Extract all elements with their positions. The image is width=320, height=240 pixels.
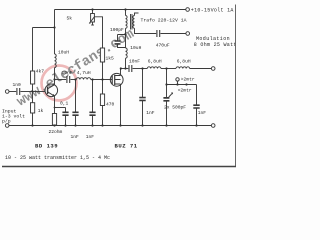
wire corner to 1nF output xyxy=(196,85,198,106)
wire choke to drain node xyxy=(125,58,127,68)
wire gate node to mosfet gate xyxy=(103,79,113,81)
wire coil to collector xyxy=(54,68,56,85)
wire base node to transistor xyxy=(33,91,46,93)
svg-text:1k: 1k xyxy=(38,108,44,114)
ground node 22ohm xyxy=(53,124,55,126)
svg-text:BUZ 71: BUZ 71 xyxy=(115,143,138,150)
svg-text:Trafo 220-12V 1A: Trafo 220-12V 1A xyxy=(141,18,187,24)
svg-text:p/p: p/p xyxy=(2,119,11,125)
node 4k7 top xyxy=(53,26,55,28)
wire ground rail xyxy=(9,125,211,127)
capacitor 1nF shunt b xyxy=(92,80,94,126)
node drain xyxy=(120,67,122,69)
wire collector chain tap xyxy=(55,79,67,81)
svg-text:470uF: 470uF xyxy=(156,43,170,49)
svg-text:1nF: 1nF xyxy=(71,134,80,140)
node tap a xyxy=(176,83,178,85)
wire input terminal to cap xyxy=(9,91,16,93)
node chainA right xyxy=(91,78,93,80)
inductor 10uH choke xyxy=(126,48,128,58)
wire top supply rail xyxy=(55,9,186,11)
wire pot lower stub xyxy=(91,22,94,25)
svg-text:1nF: 1nF xyxy=(146,110,155,116)
svg-text:+10-15Volt 1A: +10-15Volt 1A xyxy=(191,8,234,14)
wire 22ohm to ground xyxy=(54,124,56,127)
svg-text:1n0: 1n0 xyxy=(13,82,22,88)
capacitor trimmer 2x500pF xyxy=(163,98,169,101)
wire 470uF to modulation terminal xyxy=(161,33,186,35)
ground node trimmer xyxy=(165,124,167,126)
wire pot wiper to 1k5 xyxy=(94,17,102,48)
potentiometer 5k xyxy=(91,14,95,23)
ground node 1k xyxy=(31,124,33,126)
wire left vertical from rail to oscillator coil xyxy=(54,10,56,55)
node 1nF mid top xyxy=(141,67,143,69)
wire mosfet drain up xyxy=(120,69,122,76)
capacitor 100pF xyxy=(115,41,121,44)
wire junction down to trimmer xyxy=(166,69,168,98)
wire emitter down xyxy=(54,96,56,113)
terminal input xyxy=(5,90,9,94)
wire trafo secondary top stub xyxy=(135,13,139,16)
capacitor 1nF shunt a xyxy=(75,80,77,126)
inductor 6,8uH second xyxy=(176,67,190,69)
svg-text:10 - 25 watt transmitter 1,5: 10 - 25 watt transmitter 1,5 - 4 Mc xyxy=(5,155,110,161)
capacitor 1nF shunt mid xyxy=(142,69,144,126)
svg-text:2x 500pF: 2x 500pF xyxy=(164,105,186,111)
svg-text:8 Ohm 25 Watt: 8 Ohm 25 Watt xyxy=(194,42,237,48)
node rail-pot xyxy=(91,8,93,10)
wire trafo primary to rail xyxy=(125,10,127,16)
terminal antenna xyxy=(211,67,215,71)
capacitor 1n0 input xyxy=(17,88,20,95)
resistor 1k5 xyxy=(100,48,104,62)
watermark logo ring xyxy=(14,26,137,110)
svg-text:6,8uH: 6,8uH xyxy=(148,58,162,64)
wire node X jog to 100pF xyxy=(118,35,126,41)
resistor 470 xyxy=(100,94,104,106)
node base xyxy=(31,90,33,92)
wire output tap horizontal xyxy=(167,84,197,86)
wire gate node to 470 xyxy=(102,80,104,95)
node coil junction xyxy=(165,67,167,69)
ground node 1nF a xyxy=(74,124,76,126)
svg-text:1k5: 1k5 xyxy=(106,56,115,62)
ground node source xyxy=(119,124,121,126)
wire 1nF to ground xyxy=(196,109,198,126)
resistor 4k7 xyxy=(31,71,35,84)
node X xyxy=(124,33,126,35)
inductor 10uH oscillator xyxy=(55,54,57,68)
resistor 22ohm xyxy=(52,114,56,126)
wire 100pF bottom jog xyxy=(118,44,126,47)
frame xyxy=(235,5,237,168)
svg-text:BD 139: BD 139 xyxy=(35,143,58,150)
node rail-trafo xyxy=(124,8,126,10)
inductor 4,7uH xyxy=(76,78,90,80)
terminal +10-15V supply xyxy=(186,8,190,12)
svg-text:6,8uH: 6,8uH xyxy=(177,58,191,64)
wire cap to base node xyxy=(21,91,33,93)
inductor 6,8uH first xyxy=(147,67,161,69)
svg-text:0,1: 0,1 xyxy=(60,101,69,107)
wire coil to antenna terminal xyxy=(190,68,212,70)
node collector tap xyxy=(53,78,55,80)
wire drain node to 10nF xyxy=(121,68,129,70)
node emitter jog xyxy=(54,107,56,109)
svg-text:470: 470 xyxy=(106,101,115,107)
wire emitter jog to bypass cap xyxy=(55,107,66,109)
terminal modulation xyxy=(186,32,190,36)
wire 10nF to coil 6,8uH xyxy=(133,68,148,70)
svg-text:>2mtr: >2mtr xyxy=(181,77,195,83)
wire pot 5k to rail xyxy=(92,10,94,14)
capacitor 1nF output xyxy=(193,105,199,108)
wire between coils xyxy=(161,68,176,70)
wire mosfet source down xyxy=(120,84,122,126)
svg-text:4k7: 4k7 xyxy=(36,68,45,74)
node gate xyxy=(101,78,103,80)
wire cap to coil xyxy=(71,79,77,81)
ground node 0,1 xyxy=(64,124,66,126)
wire base node to 1k xyxy=(32,92,34,103)
ground node 1nF out xyxy=(195,124,197,126)
svg-text:5k: 5k xyxy=(67,15,73,21)
wire trimmer to ground xyxy=(166,101,168,126)
node chainA left xyxy=(74,78,76,80)
svg-text:10nF: 10nF xyxy=(62,70,73,76)
wire 1k5 to gate node xyxy=(102,62,104,80)
ground node 1nF b xyxy=(91,124,93,126)
ground node 1nF mid xyxy=(141,124,143,126)
wire 1k to ground xyxy=(32,113,34,126)
wire node X xyxy=(125,28,127,34)
wire 470 to ground xyxy=(102,106,104,126)
wire coil to gate node xyxy=(91,79,103,81)
svg-text:4,7uH: 4,7uH xyxy=(77,70,91,76)
transformer core xyxy=(131,14,133,30)
wire 4k7 branch horizontal xyxy=(33,27,55,29)
ground node 470 xyxy=(101,124,103,126)
svg-text:10nF: 10nF xyxy=(129,58,140,64)
svg-text:<2mtr: <2mtr xyxy=(178,87,192,93)
transistor Q2 BUZ71 mosfet xyxy=(110,73,123,86)
node choke bottom xyxy=(124,67,126,69)
resistor 1k xyxy=(31,103,35,113)
capacitor 10nF series xyxy=(67,76,70,83)
terminal antenna tap xyxy=(177,81,179,84)
capacitor 470uF xyxy=(157,30,160,37)
wire trafo secondary to 470uF xyxy=(135,28,157,33)
wire 4k7 to base node xyxy=(32,84,34,92)
wire 4k7 top vertical xyxy=(32,28,34,72)
capacitor 10nF series output xyxy=(129,65,132,72)
transformer trafo 220-12V winding left xyxy=(126,16,128,29)
terminal ground left xyxy=(5,124,9,128)
terminal ground right xyxy=(211,124,215,128)
capacitor 0,1 emitter bypass xyxy=(65,108,67,126)
svg-text:10uH: 10uH xyxy=(58,49,69,55)
transformer winding right xyxy=(133,16,135,29)
svg-text:10uH: 10uH xyxy=(130,45,141,51)
svg-text:100pF: 100pF xyxy=(110,27,124,33)
transistor Q1 BD139 xyxy=(45,84,58,97)
svg-text:1nF: 1nF xyxy=(198,110,207,116)
node tap left xyxy=(165,83,167,85)
svg-text:22ohm: 22ohm xyxy=(49,129,63,135)
svg-text:1nF: 1nF xyxy=(86,134,95,140)
wire node X to choke xyxy=(125,35,127,49)
node tap b xyxy=(185,83,187,85)
